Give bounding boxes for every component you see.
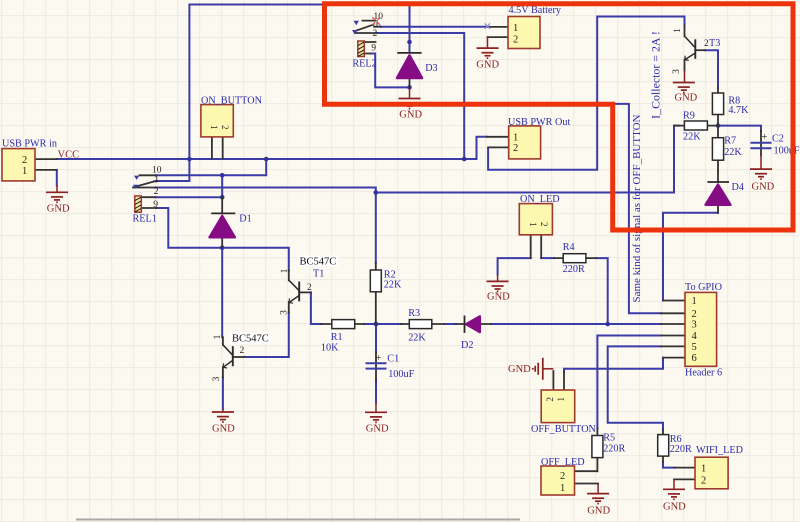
svg-text:R1: R1 (331, 332, 343, 343)
svg-text:1: 1 (560, 483, 565, 494)
svg-text:2: 2 (22, 155, 27, 166)
svg-text:1: 1 (209, 125, 219, 130)
svg-text:R3: R3 (408, 308, 420, 319)
relay arrows REL1 (133, 176, 139, 189)
connector USB PWR in (2, 149, 35, 181)
svg-text:GND: GND (508, 364, 531, 375)
svg-text:2: 2 (240, 346, 245, 356)
relay coil REL2 (358, 41, 365, 57)
svg-text:100uF: 100uF (774, 146, 800, 157)
relay arrows REL2 (352, 21, 359, 35)
wire VCC to REL1 pin 1 (156, 159, 189, 181)
svg-text:GND: GND (47, 204, 70, 215)
svg-text:Header 6: Header 6 (685, 368, 722, 379)
pin line D1 cathode (221, 197, 223, 213)
pin lines R6 (662, 430, 664, 463)
switch blade REL2 (356, 25, 374, 31)
transistor T1 (BC547C) (289, 280, 299, 303)
resistor R1 (332, 320, 355, 329)
connector 4.5V Battery (508, 17, 540, 49)
svg-text:T3: T3 (709, 38, 720, 49)
svg-text:220R: 220R (670, 444, 692, 455)
resistor R7 (712, 138, 723, 161)
wire junction down to R2 (375, 193, 377, 264)
svg-text:R9: R9 (683, 111, 695, 122)
svg-text:22K: 22K (724, 147, 742, 158)
svg-text:GND: GND (663, 502, 686, 513)
wire top loop from VCC junction up and across to D3 cathode (189, 5, 409, 160)
led OFF_LED (541, 466, 575, 495)
svg-text:T1: T1 (313, 269, 324, 280)
pin lines R5 (596, 429, 598, 472)
svg-text:1: 1 (213, 334, 223, 339)
red highlight rectangle (325, 4, 794, 230)
svg-text:1: 1 (556, 397, 566, 402)
svg-text:C1: C1 (387, 354, 399, 365)
wire VCC main from USB PWR in to USB PWR Out (57, 137, 488, 159)
svg-text:220R: 220R (603, 444, 625, 455)
svg-text:2: 2 (560, 471, 565, 482)
capacitor C2 lower lead (760, 155, 762, 169)
svg-text:Same kind of signal as for OFF: Same kind of signal as for OFF_BUTTON (631, 114, 643, 302)
pin lines R3 (401, 323, 444, 325)
svg-text:1: 1 (528, 222, 538, 227)
ground at OFF_LED (587, 484, 609, 504)
diode D2 (465, 316, 480, 333)
svg-text:+: + (376, 353, 382, 364)
svg-text:GND: GND (752, 182, 775, 193)
resistor R2 (370, 270, 381, 292)
svg-text:2: 2 (539, 222, 549, 227)
led WIFI_LED (695, 457, 728, 489)
ground at WIFI_LED (663, 479, 685, 499)
svg-text:3: 3 (692, 320, 697, 331)
resistor R6 (658, 435, 669, 457)
pin lines R4 (554, 257, 596, 259)
pin lines USB PWR Out (487, 137, 509, 148)
svg-text:2: 2 (154, 187, 159, 197)
pin number labels (22, 23, 518, 177)
transistor T3 (685, 36, 696, 60)
value label BC547C for T1 (297, 256, 338, 268)
wire rail node down to C1 (375, 324, 377, 353)
svg-text:1: 1 (673, 28, 683, 33)
svg-text:10K: 10K (321, 343, 339, 354)
svg-text:1: 1 (513, 132, 518, 143)
svg-text:9: 9 (371, 44, 376, 54)
wire REL1 pin 9 to D1 cathode node (156, 196, 223, 198)
svg-text:VCC: VCC (58, 150, 80, 161)
ground at USB PWR in (46, 185, 68, 202)
diode D3 (397, 53, 422, 78)
svg-text:GND: GND (487, 292, 510, 303)
svg-text:4: 4 (692, 331, 698, 342)
wire USB PWR in pin1 to GND (56, 170, 58, 186)
svg-text:BC547C: BC547C (300, 257, 337, 268)
pin lines GPIO header 1-6 (661, 301, 685, 358)
svg-text:2: 2 (692, 309, 697, 320)
svg-text:3: 3 (280, 310, 290, 315)
pin lines ON_LED (531, 235, 542, 258)
button OFF_BUTTON (541, 390, 575, 423)
pin line D1 anode (221, 238, 223, 248)
svg-text:3: 3 (212, 376, 222, 381)
svg-text:D4: D4 (732, 182, 744, 193)
pin lines R2 (375, 263, 377, 324)
wire rail D2 anode east to GPIO pin 3 (491, 323, 661, 325)
resistor R8 (712, 93, 723, 115)
svg-text:D2: D2 (461, 340, 473, 351)
pin lines D4 (717, 171, 719, 213)
wire REL2 pin2 down to VCC (377, 33, 464, 159)
svg-text:2: 2 (513, 143, 518, 154)
svg-text:22K: 22K (384, 280, 402, 291)
pin lines REL1: pin10, pin1 stub, pin2, pin9, coil bottom (133, 175, 157, 208)
relay coil REL1 (135, 196, 142, 212)
ground at ON_LED (487, 275, 509, 292)
pin line T2 base (233, 356, 245, 358)
wire D3 cathode stub (409, 42, 411, 53)
pin line C1 through plates (375, 353, 377, 380)
diode D1 (210, 213, 236, 237)
wire R6 bottom to WIFI_LED pin1 (663, 462, 675, 468)
capacitor C2 (750, 143, 771, 149)
wire long east run from junction to R9 (376, 126, 679, 193)
wire GPIO pin6 to OFF_BUTTON (564, 358, 663, 372)
svg-text:OFF_BUTTON: OFF_BUTTON (531, 424, 597, 435)
pin lines D2 (456, 323, 491, 325)
pin lines R8 (717, 88, 719, 126)
scrollbar line (76, 519, 520, 521)
wire C1 bottom to GND (375, 380, 377, 403)
pin lines WIFI_LED (674, 468, 695, 480)
svg-text:USB PWR in: USB PWR in (2, 139, 57, 150)
svg-text:1: 1 (154, 175, 159, 185)
svg-text:ON_BUTTON: ON_BUTTON (201, 96, 263, 107)
pin line T3 base (695, 49, 705, 51)
svg-text:1: 1 (692, 296, 697, 307)
svg-text:REL2: REL2 (352, 59, 376, 70)
switch blade REL1 (134, 182, 154, 188)
pin lines R7 (717, 126, 719, 171)
svg-text:GND: GND (399, 109, 422, 120)
ground at C1 (365, 403, 387, 423)
resistor R9 (684, 121, 707, 130)
wire REL2 coil bottom to D3 anode node (371, 54, 410, 88)
svg-text:OFF_LED: OFF_LED (541, 457, 585, 468)
wire rail R1 to R3 (364, 323, 401, 325)
button ON_BUTTON (201, 105, 233, 137)
ground at 4.5V Battery (477, 37, 499, 58)
resistor R4 (563, 254, 586, 263)
svg-text:USB PWR Out: USB PWR Out (508, 117, 570, 128)
svg-text:100uF: 100uF (388, 369, 414, 380)
svg-text:R7: R7 (724, 136, 736, 147)
header To GPIO (Header 6) (685, 292, 717, 366)
pin lines R9 (674, 125, 718, 127)
ground at T2 (212, 409, 234, 422)
ground at C2 (750, 169, 772, 179)
pin line T1 base (299, 291, 311, 293)
resistor R5 (592, 436, 603, 458)
pin lines T1 collector, emitter (288, 270, 290, 312)
wire ON_LED pin2 to R4 (541, 257, 554, 259)
svg-text:3: 3 (672, 69, 682, 74)
pin lines battery (486, 27, 508, 37)
wire R4 to GPIO pin3 node (596, 258, 607, 324)
svg-text:6: 6 (692, 353, 697, 364)
resistor R3 (409, 320, 432, 329)
svg-text:1: 1 (701, 464, 706, 475)
svg-text:D1: D1 (239, 213, 251, 224)
pin line C2 through plates (760, 131, 762, 156)
svg-text:REL1: REL1 (133, 214, 157, 225)
svg-text:WIFI_LED: WIFI_LED (696, 445, 743, 456)
wire T2 emitter to GND (222, 378, 224, 409)
wire GPIO pin4 to R5 (597, 336, 661, 429)
wire GPIO pin5 to R6 (608, 346, 663, 429)
wire VCC to REL1 pin 10 (156, 159, 267, 175)
svg-text:R4: R4 (563, 242, 575, 253)
wire T1 emitter to T2 base (245, 312, 289, 357)
ground at D3 (399, 87, 421, 108)
capacitor C1 (366, 363, 387, 368)
pin lines D3 (409, 73, 411, 87)
svg-text:R5: R5 (603, 433, 615, 444)
wire REL1 pin 2 east to junction (156, 188, 376, 193)
ground at OFF_BUTTON (sideways) (533, 358, 554, 380)
diode D4 (706, 182, 731, 205)
svg-text:9: 9 (153, 200, 158, 210)
svg-text:4.7K: 4.7K (728, 105, 749, 116)
svg-text:ON_LED: ON_LED (520, 194, 560, 205)
svg-text:BC547C: BC547C (232, 334, 269, 345)
svg-text:I_Collector = 2A !: I_Collector = 2A ! (649, 31, 663, 119)
pin lines OFF_BUTTON (553, 371, 564, 390)
wire T3 base to R8 (705, 50, 718, 88)
wire T1 base down to R1 (311, 292, 322, 324)
connector USB PWR Out (509, 126, 541, 159)
wire rail R3/D2 gap (444, 323, 456, 325)
svg-text:2: 2 (373, 29, 378, 39)
svg-text:2: 2 (513, 34, 518, 45)
svg-text:D3: D3 (425, 63, 437, 74)
svg-text:220R: 220R (563, 264, 585, 275)
GND text labels (47, 60, 775, 517)
wire ON_LED pin1 to GND (498, 258, 531, 274)
svg-text:To GPIO: To GPIO (685, 282, 722, 293)
transistor T2 (BC547C) (223, 345, 233, 368)
pin lines T2 collector, emitter (222, 337, 224, 378)
svg-text:2: 2 (704, 39, 709, 49)
svg-text:GND: GND (675, 93, 698, 104)
pin line OFF_LED pin2 to R5 (575, 470, 598, 472)
pin lines ON_BUTTON (212, 137, 223, 158)
svg-text:4.5V Battery: 4.5V Battery (509, 5, 562, 16)
svg-text:+: + (762, 132, 768, 143)
svg-text:5: 5 (692, 342, 697, 353)
pin lines T3 collector, emitter (684, 26, 686, 71)
svg-text:2: 2 (307, 283, 312, 293)
pin lines REL2: pin10, pin1 stub, pin2, pin9, coil bottom (355, 21, 381, 54)
ground at T3 (673, 71, 695, 93)
wire REL1 coil bottom to T1 collector (156, 208, 289, 270)
wire D4 anode to GPIO pin1 (663, 213, 718, 301)
svg-text:1: 1 (280, 268, 290, 273)
svg-text:2: 2 (701, 476, 706, 487)
svg-text:22K: 22K (683, 132, 701, 143)
svg-text:1: 1 (513, 23, 518, 34)
pin lines USB PWR in pin2 and pin1 (35, 159, 57, 170)
svg-text:C2: C2 (772, 134, 784, 145)
wire REL2 pin1 to battery pin1 (381, 26, 486, 28)
pin lines R1 (322, 323, 365, 325)
error marker red X at REL2 (372, 17, 380, 25)
no-ERC marker blue X at battery pin1 (485, 23, 490, 28)
svg-text:GND: GND (476, 60, 499, 71)
wire R7/R8 node to C2 (718, 126, 761, 132)
wire USB PWR Out pin2 to T3 collector loop (488, 17, 684, 170)
svg-text:1: 1 (22, 166, 27, 177)
svg-text:2: 2 (545, 397, 555, 402)
value label BC547C for T2 (230, 333, 271, 345)
pin line OFF_LED pin1 (575, 483, 598, 486)
led ON_LED (519, 204, 552, 235)
wire D1 anode node down to T2 collector (221, 248, 223, 337)
svg-text:GND: GND (212, 424, 235, 435)
wire GPIO pin2 chain from x597 vertical (597, 104, 661, 313)
svg-text:GND: GND (587, 506, 610, 517)
svg-text:22K: 22K (408, 332, 426, 343)
svg-text:GND: GND (366, 424, 389, 435)
svg-text:2: 2 (220, 125, 230, 130)
wire node above D1 (221, 175, 223, 197)
